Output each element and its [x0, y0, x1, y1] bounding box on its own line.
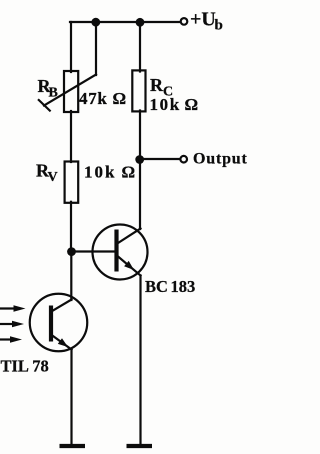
resistor R_V body (10k)	[65, 162, 79, 203]
wire: rail to RB top	[70, 22, 72, 72]
node: base junction	[67, 247, 76, 256]
light arrow 2 into TIL 78	[1, 321, 25, 327]
wire: TIL 78 emitter to ground	[70, 350, 72, 445]
resistor R_B wiper end bar	[39, 100, 50, 111]
wire: rail to RC top	[139, 22, 141, 72]
svg-text:TIL: TIL	[1, 357, 29, 376]
svg-text:10k: 10k	[150, 95, 181, 114]
resistor R_B body (47k variable)	[64, 71, 78, 112]
svg-text:BC: BC	[145, 277, 168, 296]
wire: Q1 emitter to ground	[139, 276, 141, 445]
ground: left (TIL 78 emitter)	[60, 444, 86, 448]
wire: +Ub supply rail	[70, 21, 180, 23]
wire: base node down to phototransistor collector	[70, 252, 72, 301]
wire: output node to output terminal	[140, 158, 180, 160]
svg-text:V: V	[48, 170, 58, 185]
svg-text:Ω: Ω	[113, 89, 127, 108]
svg-text:+U: +U	[190, 9, 216, 31]
node: output junction	[135, 155, 144, 164]
svg-text:B: B	[49, 86, 58, 101]
svg-text:78: 78	[32, 357, 49, 376]
terminal: Output open circle	[180, 156, 187, 163]
svg-text:Ω: Ω	[122, 163, 136, 182]
wire: RV bottom to base node	[70, 202, 72, 252]
terminal: +Ub open circle	[181, 18, 188, 25]
transistor Q1 BC 183	[93, 225, 148, 280]
resistor R_B wiper arrow diagonal	[44, 75, 96, 106]
light arrow 3 into TIL 78	[1, 336, 23, 342]
wire: base node to Q1 base	[71, 250, 115, 252]
svg-text:R: R	[150, 75, 164, 95]
node: rail junction at RC branch	[136, 18, 145, 27]
light arrow 1 into TIL 78	[1, 305, 26, 311]
svg-text:b: b	[215, 18, 223, 34]
wire: output node to Q1 collector	[139, 159, 141, 229]
svg-text:Ω: Ω	[185, 95, 199, 114]
phototransistor Q2 TIL 78	[30, 294, 88, 352]
svg-text:Output: Output	[193, 151, 248, 168]
svg-text:183: 183	[171, 277, 196, 296]
svg-text:10k: 10k	[84, 163, 116, 182]
wire: RB bottom to RV top	[70, 111, 72, 162]
svg-text:47k: 47k	[79, 89, 108, 108]
wire: rail junction down to RB wiper arrow	[95, 22, 97, 75]
ground: right (Q1 emitter)	[127, 444, 153, 448]
resistor R_C body (10k)	[132, 70, 145, 111]
node: rail junction at RB wiper	[91, 18, 100, 27]
wire: RC bottom to output node	[139, 111, 141, 160]
